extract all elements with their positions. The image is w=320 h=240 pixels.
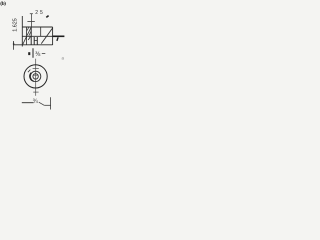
leader arrow tick below bold line xyxy=(57,37,58,41)
svg-text:1.625: 1.625 xyxy=(12,18,18,32)
centreline cross tick (lower) xyxy=(33,91,38,93)
crossbar in hole xyxy=(34,40,37,42)
front view: left edge xyxy=(21,16,23,47)
svg-text:2: 2 xyxy=(35,10,38,16)
hatch: upper-left cell xyxy=(27,28,31,36)
front view: top edge xyxy=(22,26,52,28)
arrow dot (upper right) xyxy=(46,16,48,18)
inner vertical (counterbore right) xyxy=(40,27,42,36)
between-views: right dash xyxy=(42,53,46,55)
bottom view: hole circle xyxy=(33,74,38,79)
inner vertical (hub left) xyxy=(26,27,28,45)
heavier left arc of counterbore xyxy=(30,73,34,82)
hatch: lower-left cell xyxy=(23,37,27,45)
hub right wall vertical xyxy=(30,27,32,45)
vertical dimension line with arrow (left, lower) xyxy=(13,41,15,50)
between-views dimension: left blob xyxy=(28,52,30,55)
front view: bottom edge (extends left) xyxy=(13,44,53,46)
svg-text:(b): (b) xyxy=(0,0,6,7)
bottom view: outer circle xyxy=(24,65,47,88)
bottom annotation: underline xyxy=(22,102,34,104)
notch mark upper-left inside circle xyxy=(28,70,30,73)
bottom annotation: right vertical xyxy=(50,97,52,109)
hole wall verticals (lower-middle) xyxy=(33,37,35,45)
front view: mid horizontal xyxy=(22,35,52,37)
bottom view: vertical centreline xyxy=(35,59,37,96)
bottom view: counterbore circle xyxy=(30,71,40,81)
dimension line (upper, short) xyxy=(27,20,34,22)
hatch: right column long diagonal xyxy=(41,28,52,44)
svg-text:5: 5 xyxy=(40,10,43,16)
bottom annotation: horizontal leader xyxy=(44,104,50,106)
front view: right edge xyxy=(52,27,54,45)
centreline cross tick (centre) xyxy=(33,74,39,76)
extension line tick (top of centre extension) xyxy=(30,13,33,15)
vertical extension line (centre) xyxy=(30,14,32,28)
between-views: tall extension bar xyxy=(32,48,34,58)
centreline cross tick (upper) xyxy=(33,68,39,70)
bold leader line to right xyxy=(53,35,65,37)
hatch stroke left strip xyxy=(28,37,30,40)
bottom annotation: diagonal leader xyxy=(39,102,44,105)
